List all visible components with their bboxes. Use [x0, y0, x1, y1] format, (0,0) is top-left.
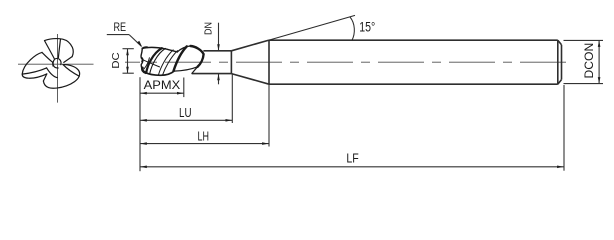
svg-text:DC: DC	[110, 52, 122, 69]
svg-text:RE: RE	[114, 20, 127, 34]
svg-text:LF: LF	[346, 151, 359, 165]
svg-text:LU: LU	[179, 105, 192, 120]
svg-text:DN: DN	[202, 22, 214, 35]
svg-text:LH: LH	[198, 129, 210, 144]
svg-text:APMX: APMX	[144, 80, 181, 92]
svg-text:15°: 15°	[359, 19, 375, 34]
svg-text:DCON: DCON	[582, 43, 596, 79]
